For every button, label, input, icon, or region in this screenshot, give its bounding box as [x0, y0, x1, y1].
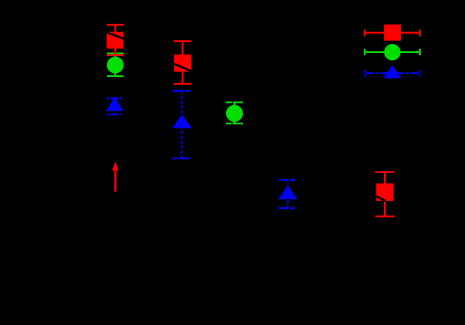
legend entry 3: blue dashed xerrorbar sample	[365, 70, 420, 76]
blue triangle marker P4	[279, 185, 298, 199]
red square marker P2	[174, 55, 191, 72]
legend red square marker	[384, 25, 401, 41]
black line segment across square P1	[107, 32, 124, 38]
legend entry 2: green xerrorbar sample	[365, 49, 420, 56]
red errorbar P5 (solid)	[375, 172, 394, 216]
green dashed errorbar P3	[226, 102, 243, 123]
blue dashed errorbar P2	[173, 91, 192, 159]
green circle marker P3	[226, 105, 243, 122]
black line segment across square P2	[174, 64, 191, 72]
legend entry 1: red xerrorbar sample	[365, 29, 420, 36]
blue dashed errorbar P1	[107, 98, 123, 114]
red arrow annotation	[112, 161, 118, 191]
green circle marker P1	[107, 57, 124, 74]
red errorbar P1 (solid)	[107, 25, 124, 55]
red square marker P5	[376, 183, 394, 201]
legend blue triangle marker	[383, 65, 401, 78]
green errorbar P1 (solid)	[107, 53, 124, 76]
red square marker P1	[107, 32, 124, 49]
blue dashed errorbar P4	[279, 180, 296, 208]
blue triangle marker P2	[172, 114, 192, 128]
blue triangle marker P1	[106, 97, 123, 112]
red errorbar P2 (solid)	[174, 41, 192, 84]
black line segment across square P5	[376, 196, 385, 201]
legend green circle marker	[384, 44, 400, 60]
